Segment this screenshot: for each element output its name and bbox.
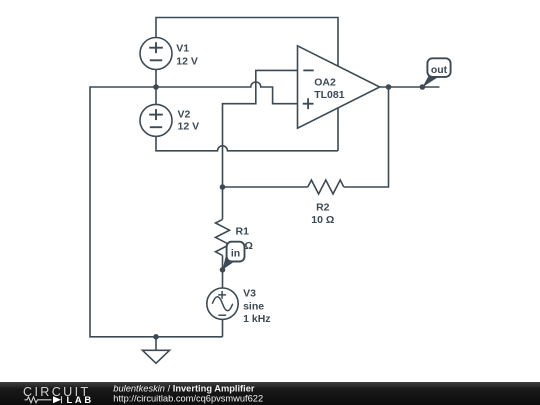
svg-text:12 V: 12 V [176,56,198,68]
svg-text:OA2: OA2 [314,76,336,88]
svg-text:in: in [231,248,240,260]
svg-text:R1: R1 [236,225,250,237]
svg-text:sine: sine [243,300,264,312]
svg-text:V1: V1 [176,43,189,55]
svg-text:out: out [431,64,448,76]
svg-text:V3: V3 [243,288,256,300]
svg-text:1 kHz: 1 kHz [243,313,270,325]
svg-text:10 Ω: 10 Ω [311,214,334,226]
svg-text:R2: R2 [316,201,330,213]
svg-text:TL081: TL081 [314,89,345,101]
svg-text:http://circuitlab.com/cq6pvsmw: http://circuitlab.com/cq6pvsmwuf622 [113,394,263,404]
svg-text:LAB: LAB [67,394,94,405]
svg-text:bulentkeskin / Inverting Ampli: bulentkeskin / Inverting Amplifier [113,384,255,394]
svg-text:V2: V2 [178,109,191,121]
svg-text:12 V: 12 V [178,121,200,133]
